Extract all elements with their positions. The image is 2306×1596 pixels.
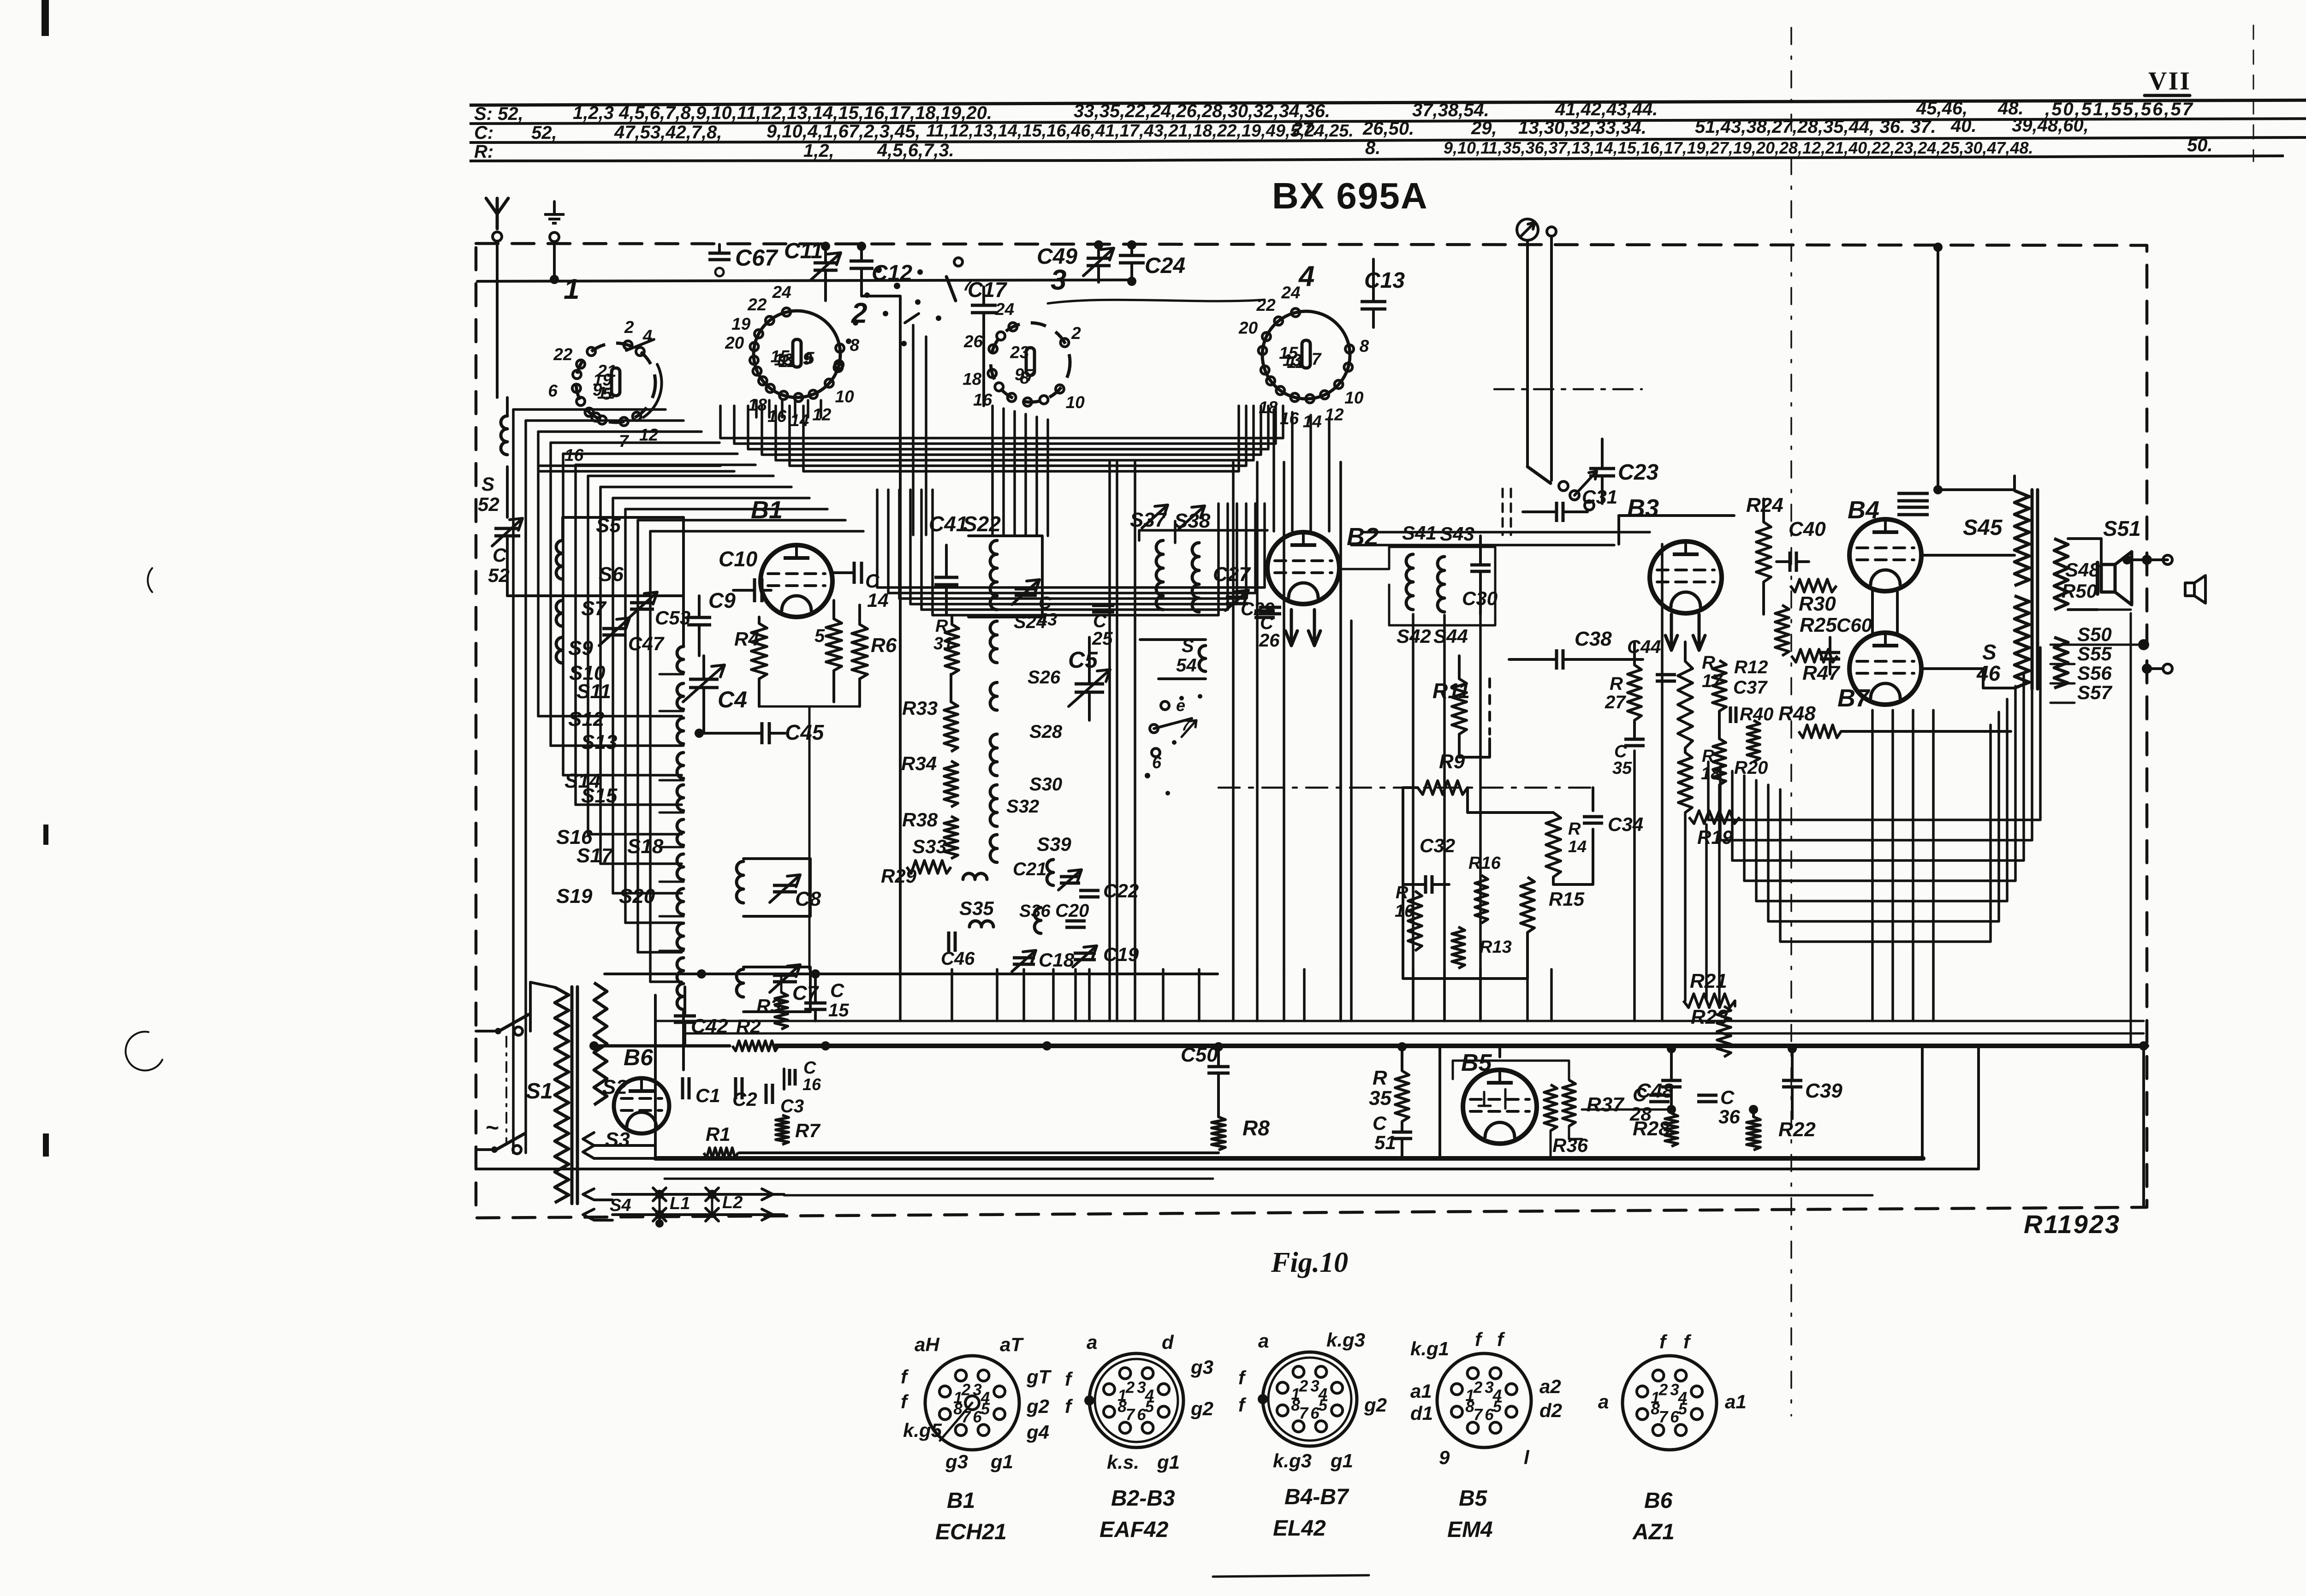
svg-text:52,: 52, xyxy=(531,123,557,143)
coil S6 xyxy=(556,563,624,626)
resistor R36 xyxy=(1544,1085,1588,1156)
svg-text:12: 12 xyxy=(1325,405,1344,424)
svg-text:C5: C5 xyxy=(1068,647,1098,673)
svg-text:14: 14 xyxy=(867,589,889,611)
bus bundle 2 xyxy=(877,490,1265,615)
svg-text:24: 24 xyxy=(772,283,791,302)
svg-text:C31: C31 xyxy=(1582,486,1617,508)
resistor R9 xyxy=(1403,750,1468,795)
capacitor C49 xyxy=(1037,240,1114,281)
capacitor C36 xyxy=(1697,1086,1740,1127)
svg-text:gT: gT xyxy=(1026,1366,1052,1388)
capacitor C1 xyxy=(683,1077,720,1106)
svg-text:R4: R4 xyxy=(734,628,759,650)
svg-text:a1: a1 xyxy=(1725,1391,1747,1412)
B3 top wires xyxy=(1619,516,1734,544)
wafer4 drop wires xyxy=(1274,409,1329,531)
trimmer C53 xyxy=(627,592,690,629)
svg-text:2: 2 xyxy=(1125,1378,1135,1396)
scanner edge mark 2 xyxy=(43,825,48,845)
svg-text:C34: C34 xyxy=(1608,813,1643,835)
capacitor C17 xyxy=(968,278,1008,406)
svg-text:R:: R: xyxy=(474,142,493,162)
svg-text:S7: S7 xyxy=(581,597,607,620)
trimmer C7 xyxy=(770,965,820,1004)
middle long verticals xyxy=(1110,462,1341,969)
svg-text:S55: S55 xyxy=(2077,643,2112,665)
svg-text:10: 10 xyxy=(835,387,855,406)
capacitor C29 xyxy=(1241,599,1275,619)
group wires xyxy=(1634,642,1719,753)
resistor R48 xyxy=(1778,702,2011,738)
svg-text:R23: R23 xyxy=(1691,1006,1728,1028)
fold line xyxy=(1790,28,1792,1416)
svg-text:EL42: EL42 xyxy=(1273,1516,1326,1541)
svg-text:EM4: EM4 xyxy=(1447,1518,1493,1542)
resistor R38 xyxy=(902,809,958,859)
coil S41 xyxy=(1402,522,1437,610)
svg-text:g4: g4 xyxy=(1026,1421,1049,1443)
svg-text:g1: g1 xyxy=(990,1451,1013,1472)
capacitor C27 xyxy=(1213,563,1251,611)
resistor R22 xyxy=(1747,1105,1816,1150)
secondary tap wires xyxy=(2050,639,2149,703)
coil S14 xyxy=(565,770,683,845)
svg-text:2: 2 xyxy=(624,318,634,337)
capacitor C38 xyxy=(1509,628,1643,670)
switch wafer 4 xyxy=(1262,261,1350,399)
capacitor C32 xyxy=(1403,835,1455,894)
svg-text:R15: R15 xyxy=(1549,888,1585,910)
svg-text:C24: C24 xyxy=(1145,254,1185,278)
right wire nest xyxy=(1708,647,2040,942)
socket B2-B3 EAF42 xyxy=(1065,1331,1213,1542)
page index VII xyxy=(2145,67,2191,95)
svg-text:22: 22 xyxy=(553,345,573,364)
svg-text:1,2,: 1,2, xyxy=(803,141,834,161)
svg-text:R: R xyxy=(1610,674,1623,694)
svg-text:22: 22 xyxy=(747,295,767,314)
secondary S2 xyxy=(594,983,627,1105)
switch contacts pickup xyxy=(1527,467,1597,510)
right feed vertical xyxy=(2068,610,2131,1046)
B3 cathode arrows xyxy=(1665,614,1705,650)
svg-text:10: 10 xyxy=(1344,388,1364,407)
svg-text:f: f xyxy=(1497,1329,1505,1350)
svg-text:R28: R28 xyxy=(1633,1117,1670,1140)
svg-text:C20: C20 xyxy=(1055,901,1089,921)
secondary S48 xyxy=(2054,539,2100,610)
svg-text:R20: R20 xyxy=(1734,758,1768,778)
capacitor C2 xyxy=(732,1077,757,1110)
capacitor C44 xyxy=(1627,637,1676,681)
transformer S45 xyxy=(1963,476,2029,586)
coil S18 xyxy=(627,835,743,903)
schematic border xyxy=(476,243,2147,1218)
svg-text:C60: C60 xyxy=(1836,614,1872,636)
svg-text:C11: C11 xyxy=(784,239,823,263)
resistor R21 xyxy=(1683,970,1735,1008)
svg-text:R37: R37 xyxy=(1587,1093,1625,1116)
svg-text:C53: C53 xyxy=(655,607,690,629)
svg-text:B2-B3: B2-B3 xyxy=(1111,1486,1175,1511)
svg-text:R12: R12 xyxy=(1734,657,1768,677)
svg-text:C2: C2 xyxy=(732,1088,757,1110)
svg-text:BX 695A: BX 695A xyxy=(1272,175,1428,216)
right verticals xyxy=(1872,710,1933,1021)
svg-text:5: 5 xyxy=(805,349,815,368)
speaker S51 xyxy=(2101,516,2141,605)
resistor R27 xyxy=(1605,665,1641,720)
capacitor C45 xyxy=(695,720,825,744)
secondary S3 chevron xyxy=(583,1128,654,1158)
svg-text:10: 10 xyxy=(1066,393,1085,412)
svg-text:S30: S30 xyxy=(1029,774,1062,795)
svg-text:9,10,11,35,36,37,13,14,15,16,1: 9,10,11,35,36,37,13,14,15,16,17,19,27,19… xyxy=(1444,138,2033,157)
svg-text:d1: d1 xyxy=(1410,1402,1433,1424)
B2 link wires xyxy=(1351,532,1650,545)
resistor R24 xyxy=(1746,494,1783,614)
coil S28 xyxy=(990,722,1063,776)
svg-text:S56: S56 xyxy=(2077,662,2112,684)
svg-text:C: C xyxy=(1720,1086,1735,1108)
capacitor C26 xyxy=(1259,607,1281,651)
svg-text:5: 5 xyxy=(981,1400,990,1418)
scanner edge mark 1 xyxy=(42,0,49,36)
mains switch bottom xyxy=(476,1133,525,1154)
svg-text:35: 35 xyxy=(1369,1087,1391,1109)
HT bus thick xyxy=(776,1041,2148,1051)
svg-text:S9: S9 xyxy=(568,637,593,659)
coil S20 xyxy=(619,885,743,997)
B4 anode wire xyxy=(1921,554,2015,557)
svg-text:S57: S57 xyxy=(2077,682,2112,703)
capacitor C37 xyxy=(1730,677,1768,723)
svg-text:R38: R38 xyxy=(902,809,938,831)
svg-text:27.: 27. xyxy=(1292,119,1318,139)
B3 region verticals xyxy=(1634,544,1719,1021)
svg-text:C40: C40 xyxy=(1789,518,1826,540)
resistor R17 xyxy=(1678,653,1723,748)
svg-text:7: 7 xyxy=(1474,1406,1483,1424)
capacitor C31 xyxy=(1523,486,1617,522)
svg-text:R47: R47 xyxy=(1802,662,1841,684)
socket B6 AZ1 xyxy=(1598,1331,1747,1544)
svg-text:5: 5 xyxy=(1493,1398,1502,1416)
svg-text:l: l xyxy=(1524,1447,1530,1468)
resistor R2 xyxy=(732,1015,779,1051)
coil S17 xyxy=(576,844,683,949)
mains switch top xyxy=(476,1015,529,1035)
svg-text:R33: R33 xyxy=(902,697,938,719)
coil S7 xyxy=(556,597,607,663)
fold line top right xyxy=(2253,25,2254,161)
svg-text:24: 24 xyxy=(995,300,1014,319)
svg-text:C18: C18 xyxy=(1039,949,1075,971)
capacitor C22 xyxy=(1079,880,1139,902)
svg-text:R36: R36 xyxy=(1552,1134,1588,1156)
svg-text:R22: R22 xyxy=(1778,1118,1816,1141)
svg-text:a1: a1 xyxy=(1410,1380,1432,1402)
svg-text:g3: g3 xyxy=(1190,1356,1213,1378)
svg-text:R6: R6 xyxy=(871,634,897,657)
svg-text:22: 22 xyxy=(1256,296,1276,314)
B1 cathode drop xyxy=(759,706,860,969)
capacitor C67 xyxy=(708,244,779,276)
resistor R23 xyxy=(1691,1006,1731,1057)
mains tilde xyxy=(485,1115,499,1140)
wafer2 pin stubs xyxy=(756,400,821,417)
svg-text:6: 6 xyxy=(1152,753,1162,772)
coil S39 xyxy=(1037,833,1071,885)
wafer3 drop wires xyxy=(993,406,1048,536)
middle vertical near B2 xyxy=(1341,462,1351,1021)
tube B5 xyxy=(1461,1050,1537,1144)
resistor R31 xyxy=(933,617,959,674)
svg-text:f: f xyxy=(1238,1367,1247,1388)
svg-text:f: f xyxy=(901,1391,909,1412)
svg-text:f: f xyxy=(1238,1394,1247,1416)
svg-text:C:: C: xyxy=(474,123,493,143)
resistor R1 xyxy=(704,1123,738,1158)
svg-text:B4: B4 xyxy=(1848,496,1879,524)
svg-text:41,42,43,44.: 41,42,43,44. xyxy=(1555,99,1658,119)
svg-text:7: 7 xyxy=(1659,1408,1669,1426)
svg-text:S43: S43 xyxy=(1440,523,1474,545)
bus bundle wafers xyxy=(720,406,1283,471)
svg-text:S45: S45 xyxy=(1963,516,2003,540)
rotary position dots xyxy=(846,258,973,346)
S44 drop wire xyxy=(1413,614,1480,1021)
capacitor C48 xyxy=(1636,1044,1682,1108)
wafer 2 pins xyxy=(725,283,860,430)
header rule 3 xyxy=(470,137,2306,142)
coil S5 xyxy=(556,514,621,579)
transformer S1 xyxy=(526,982,569,1203)
svg-text:C46: C46 xyxy=(941,949,975,969)
svg-text:26: 26 xyxy=(1259,630,1280,651)
resistor R13 xyxy=(1452,927,1512,968)
svg-text:14: 14 xyxy=(1303,412,1322,431)
svg-text:R16: R16 xyxy=(1468,854,1501,873)
svg-text:52: 52 xyxy=(478,493,499,515)
header row C xyxy=(474,115,2089,143)
svg-text:S12: S12 xyxy=(568,708,605,730)
svg-text:R48: R48 xyxy=(1778,702,1816,725)
bundle left extension xyxy=(540,466,734,471)
tube B4 xyxy=(1848,496,1921,591)
socket B1 ECH21 xyxy=(901,1334,1052,1544)
secondary S49 xyxy=(2054,637,2068,688)
capacitor C20 xyxy=(1055,901,1089,927)
svg-text:47,53,42,7,8,: 47,53,42,7,8, xyxy=(614,122,722,142)
svg-text:R29: R29 xyxy=(881,865,917,887)
svg-text:S: S xyxy=(481,473,494,495)
mains dash link xyxy=(505,1037,507,1145)
resistor R8 xyxy=(1212,1116,1270,1150)
capacitor C12 xyxy=(850,242,912,969)
capacitor C28 xyxy=(1629,1084,1670,1125)
tube B7 xyxy=(1837,633,1921,712)
capacitor C23 xyxy=(1589,439,1658,504)
svg-text:26: 26 xyxy=(963,332,983,351)
svg-text:8: 8 xyxy=(1291,1396,1300,1414)
coil box S41 xyxy=(1339,547,1495,625)
tube B1 xyxy=(751,496,832,617)
B7 anode wire xyxy=(1921,669,2015,688)
svg-text:8: 8 xyxy=(850,336,860,355)
resistor R29 xyxy=(881,860,951,887)
capacitor C14 xyxy=(833,562,889,611)
bus verticals right xyxy=(1922,1046,2144,1206)
header rule 4 xyxy=(470,156,2284,161)
B4-B7 link xyxy=(1872,591,1897,633)
capacitor C30 xyxy=(1462,536,1498,614)
svg-text:S32: S32 xyxy=(1006,796,1039,817)
capacitor C25 xyxy=(1092,605,1114,649)
resistor R11 xyxy=(1432,656,1490,757)
svg-text:S11: S11 xyxy=(576,680,611,703)
svg-text:k.g1: k.g1 xyxy=(1410,1338,1449,1359)
coil S32 xyxy=(990,796,1039,862)
svg-text:a: a xyxy=(1087,1331,1097,1353)
svg-text:R7: R7 xyxy=(795,1120,820,1141)
HT bus thin 1 xyxy=(655,1020,2144,1022)
svg-text:f: f xyxy=(1475,1329,1483,1350)
svg-text:S: 52,: S: 52, xyxy=(474,104,523,124)
svg-text:7: 7 xyxy=(619,432,630,451)
trimmer C8 xyxy=(770,875,821,910)
coil S24 xyxy=(990,612,1046,663)
capacitor C35 xyxy=(1612,739,1645,778)
drawing number R11923 xyxy=(2024,1210,2121,1239)
coil S26 xyxy=(990,667,1061,710)
svg-text:S6: S6 xyxy=(599,563,624,586)
coil S36 xyxy=(1019,902,1051,933)
resistor R28 xyxy=(1633,1105,1678,1146)
svg-text:C32: C32 xyxy=(1420,835,1455,856)
antenna symbol xyxy=(486,198,508,241)
HT bus thin 2 xyxy=(685,1032,2144,1035)
svg-text:20: 20 xyxy=(1238,318,1258,337)
resistor R15 xyxy=(1521,877,1585,932)
wire wafer3 to wafer4 xyxy=(1048,300,1265,303)
coil S10 xyxy=(569,662,683,709)
resistor R12 xyxy=(1712,657,1768,711)
resistor R37 xyxy=(1563,1080,1625,1126)
capacitor C60 xyxy=(1820,614,1872,674)
earth symbol xyxy=(544,202,565,242)
socket B4-B7 EL42 xyxy=(1238,1329,1387,1541)
svg-text:g2: g2 xyxy=(1026,1395,1049,1417)
svg-text:24: 24 xyxy=(1281,283,1300,302)
capacitor C16 xyxy=(784,1058,821,1094)
B5 wires xyxy=(1440,1047,1671,1158)
svg-text:13,30,32,33,34.: 13,30,32,33,34. xyxy=(1518,118,1646,138)
svg-text:S1: S1 xyxy=(526,1079,553,1104)
dash-dot link xyxy=(1494,388,1642,391)
tube B6 xyxy=(614,1044,669,1133)
svg-text:9,10,4,1,67,2,3,45,: 9,10,4,1,67,2,3,45, xyxy=(767,121,921,142)
switch wafer 1 xyxy=(564,273,655,422)
left nest verticals xyxy=(513,409,650,1153)
svg-text:C13: C13 xyxy=(1364,268,1405,293)
caption Fig.10 xyxy=(1271,1247,1348,1278)
wire C49 C24 bus xyxy=(477,280,1132,282)
power top wire xyxy=(605,969,1218,979)
svg-text:S4: S4 xyxy=(610,1196,631,1215)
svg-text:g1: g1 xyxy=(1330,1450,1353,1471)
svg-text:50.: 50. xyxy=(2187,135,2213,155)
left chain taps xyxy=(660,674,683,951)
output terminals xyxy=(2142,555,2172,674)
svg-text:B5: B5 xyxy=(1461,1050,1492,1076)
svg-text:B4-B7: B4-B7 xyxy=(1284,1485,1349,1509)
svg-text:6: 6 xyxy=(1310,1405,1319,1423)
svg-text:51: 51 xyxy=(1374,1132,1396,1153)
capacitor C9 xyxy=(687,588,736,656)
svg-text:B3: B3 xyxy=(1627,494,1659,522)
resistor R3 xyxy=(756,974,788,1029)
tuning capacitor C5 xyxy=(1068,637,1110,720)
svg-text:C21: C21 xyxy=(1013,859,1046,879)
coil S38 xyxy=(1174,506,1211,612)
svg-text:B1: B1 xyxy=(947,1489,975,1513)
wafer 1 rotor xyxy=(626,339,662,417)
svg-text:S48: S48 xyxy=(2065,559,2100,581)
svg-text:51,43,38,27,28,35,44, 36. 37.: 51,43,38,27,28,35,44, 36. 37. xyxy=(1695,117,1936,137)
left nest horizontals xyxy=(513,409,863,531)
pickup dashed box xyxy=(1503,489,1511,535)
svg-text:C: C xyxy=(493,544,507,566)
midfield drop wires xyxy=(900,969,1551,1021)
scanner edge mark 3 xyxy=(43,1133,49,1157)
S37 top link xyxy=(1139,521,1267,543)
resistor R4 xyxy=(734,617,767,706)
capacitor C13 xyxy=(1361,259,1405,327)
svg-text:C41: C41 xyxy=(929,512,968,536)
svg-text:C3: C3 xyxy=(780,1096,804,1116)
svg-text:23: 23 xyxy=(1010,343,1029,362)
svg-text:ECH21: ECH21 xyxy=(935,1520,1007,1544)
svg-text:S3: S3 xyxy=(605,1128,630,1151)
svg-text:k.g3: k.g3 xyxy=(1273,1450,1312,1471)
ground bus thick xyxy=(655,1153,1923,1158)
coil S9 xyxy=(568,637,683,672)
coil labels S42 S44 xyxy=(1397,625,1468,647)
coil S13 xyxy=(581,731,683,811)
svg-text:6: 6 xyxy=(1485,1406,1494,1424)
svg-text:k.g5: k.g5 xyxy=(903,1419,942,1441)
registration arc 1 xyxy=(148,568,152,592)
coil S16 xyxy=(556,826,683,914)
antenna lead wire xyxy=(496,241,499,398)
power wires xyxy=(589,995,730,1158)
svg-text:f: f xyxy=(1065,1368,1073,1390)
svg-text:1: 1 xyxy=(564,273,579,305)
socket B5 EM4 xyxy=(1410,1329,1562,1542)
svg-text:37,38,54.: 37,38,54. xyxy=(1412,100,1489,120)
svg-text:8: 8 xyxy=(1651,1400,1660,1418)
svg-text:C48: C48 xyxy=(1636,1080,1674,1102)
switch wafer 3 xyxy=(991,264,1070,402)
capacitor C34 xyxy=(1583,813,1643,835)
svg-text:R: R xyxy=(1373,1067,1387,1089)
left nest bottom turns xyxy=(538,716,682,982)
svg-text:S33: S33 xyxy=(912,836,947,857)
svg-text:8: 8 xyxy=(1465,1398,1474,1416)
svg-text:7: 7 xyxy=(1126,1406,1135,1424)
